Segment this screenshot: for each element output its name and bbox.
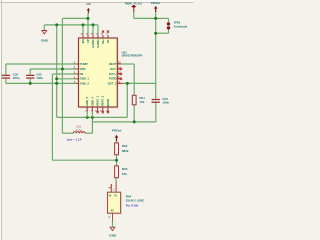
node +5V junction [87,17,90,20]
node GND_1 junction [55,77,58,80]
svg-text:FB: FB [80,72,84,76]
potentiometer R04 [108,182,145,221]
svg-text:680k: 680k [122,149,129,153]
wire GND symbol stub [43,25,45,30]
wire R01 bottom [133,105,135,122]
node GND top pin1 [82,23,85,26]
svg-text:R03: R03 [122,167,128,171]
wire rail B [92,121,155,123]
node PDOut PWR_FLAG junction [154,17,157,20]
node R01 bottom junction [133,120,136,123]
ground GND bottom [109,227,117,237]
svg-text:Isat = 1.1A: Isat = 1.1A [67,138,83,142]
inductor L01 [67,125,85,142]
wire C02 bottom stub [29,79,31,84]
wire GND vertical long [56,25,58,118]
wire jumper top drop [168,18,170,22]
U1 left pin names [80,62,90,85]
wire pot bottom to GND [112,220,114,227]
node bottom pin a junction [86,116,89,119]
U1 bottom pin names [85,95,110,106]
svg-text:100n: 100n [13,76,20,80]
U1 top pin numbers [81,34,109,36]
wire R02-R03 link [116,155,118,166]
wire +5V to L01 left [62,132,73,134]
svg-text:REXT: REXT [109,62,117,66]
wire +5V stem down to pin [87,13,89,35]
U1 top no-connect marks [102,31,109,33]
U1 right pin names [108,62,117,85]
svg-text:3314G-1-203E: 3314G-1-203E [126,199,144,203]
wire GND top rail [44,24,98,26]
wire jumper top branch [156,17,169,19]
svg-text:GND_4: GND_4 [90,97,94,107]
U1 top pin names [81,39,110,48]
svg-text:Pot 0-20k: Pot 0-20k [126,203,139,207]
U1 bottom no-connect marks [97,111,110,113]
wire GND_2 caps rail [6,82,76,84]
ground GND top-left [41,31,49,43]
wire C03 bottom riser [155,103,157,122]
R04 wiper pin arrow [110,185,112,192]
node VDD +5V junction [61,68,64,71]
wire VDD line [30,68,76,70]
svg-text:GND: GND [109,234,117,238]
svg-text:OUT+: OUT+ [109,72,117,76]
wire R02 top stub [116,141,118,143]
svg-text:IN-: IN- [106,39,110,43]
wire REXT down to R01 [133,64,135,95]
node pin11 junction [126,82,129,85]
junction dots [29,17,158,162]
wire PUMP line [6,63,76,65]
node FB divider junction [115,159,118,162]
svg-text:IN+: IN+ [101,39,105,44]
wire C02 top stub [29,69,31,75]
wire R03 to pot [115,178,117,182]
page frame left line [0,0,2,240]
svg-text:100n: 100n [162,101,169,105]
svg-text:+5V: +5V [86,2,91,6]
U1 right no-connect marks [120,68,122,80]
svg-text:BST_2: BST_2 [108,81,117,85]
wire jumper bottom branch [156,32,169,34]
wire L01 right riser [91,117,93,133]
U1 top pin stubs [83,35,108,38]
wire +5V horizontal to left [62,17,88,19]
svg-text:R02: R02 [122,144,128,148]
svg-text:15k: 15k [139,100,144,104]
svg-text:GND_3: GND_3 [85,97,89,107]
svg-text:PDOut: PDOut [151,1,161,5]
svg-text:GND: GND [41,39,49,43]
node C02 bottom junction [29,82,32,85]
capacitor C02 [26,73,43,81]
svg-text:PUMP: PUMP [80,62,88,66]
wire jumper bottom drop [168,30,170,33]
svg-text:EN: EN [81,39,85,43]
IC U1 DRV2700RGPR body [79,38,144,108]
wire REXT horizontal [121,63,134,65]
page background [0,0,194,240]
svg-text:PDOut: PDOut [112,128,122,132]
resistor R01 [132,95,145,105]
capacitor C05 [2,73,20,81]
wire GND_1 [57,78,76,80]
wire top pin 4 drop [92,25,94,35]
svg-text:PVDD: PVDD [109,77,117,81]
node GND top pin4 [92,23,95,26]
svg-text:GAIN0: GAIN0 [96,39,100,48]
power symbol +5V [86,2,91,13]
U1 left pin numbers [74,61,76,84]
node GND rail tap [55,23,58,26]
power flag PWR_FLAG [125,1,143,11]
svg-text:PWR_FLAG: PWR_FLAG [125,1,143,5]
U1 right pin stubs [117,64,123,83]
svg-text:GND_1: GND_1 [80,77,90,81]
resistor R02 [115,143,129,155]
wire FB bottom horizontal [52,159,116,161]
R04 top right pin [115,182,117,193]
svg-text:R04: R04 [126,194,132,198]
U1 bottom wired pin drops [87,112,92,118]
svg-text:GND_2: GND_2 [80,81,90,85]
wire L01 right jog [85,132,92,134]
svg-text:EPAD: EPAD [106,99,110,107]
svg-text:4.7u: 4.7u [76,128,82,132]
U1 right pin numbers [118,61,121,84]
wire GND bottom rail A [57,116,128,118]
wire rail A up to pin11 junction [126,83,128,117]
svg-text:100n: 100n [36,76,43,80]
wire +5V vertical long [61,18,63,133]
svg-text:VBAT_1: VBAT_1 [96,95,100,106]
U1 bottom pin numbers [85,109,108,112]
svg-text:10k: 10k [122,172,127,176]
wire pin11 to PDOut [123,82,155,84]
global label PDOut top [151,1,161,12]
wire top pin 5 drop [97,25,99,35]
resistor R03 [115,166,128,178]
wire PWR_FLAG stub [133,12,135,19]
wire C05 top stub [5,64,7,75]
wire C05 bottom stub [5,79,7,84]
svg-text:OUT-: OUT- [110,67,117,71]
svg-text:CP: CP [86,39,90,43]
U1 left pin stubs [76,64,79,83]
R04 bottom pin [112,213,114,220]
wire top pin 1 drop [82,25,84,35]
wire PWR_FLAG to PDOut [134,17,156,19]
U1 bottom pin stubs [87,107,108,112]
svg-text:VDD: VDD [80,67,86,71]
page frame top line [0,1,194,3]
wire FB vertical [51,74,53,160]
node GND_2 junction [55,82,58,85]
svg-text:GAIN1: GAIN1 [91,39,95,48]
wire FB line [52,73,76,75]
node bottom pin b junction [91,116,94,119]
wire PDOut vertical [155,12,157,99]
svg-text:Solderpad: Solderpad [174,24,188,28]
solder jumper JP63 [167,21,188,30]
global label PDOut bottom [112,128,122,141]
svg-text:VBAT_2: VBAT_2 [101,95,105,106]
svg-text:DRV2700RGPR: DRV2700RGPR [122,54,144,58]
capacitor C03 [152,97,170,105]
node jumper bottom junction [154,32,157,35]
